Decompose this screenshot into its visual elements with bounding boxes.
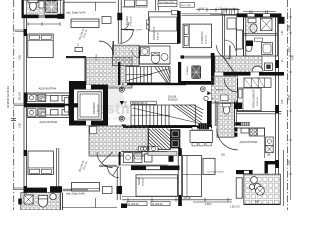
svg-text:11.00 m2: 11.00 m2 [205, 34, 207, 44]
svg-text:2.00x2.20: 2.00x2.20 [97, 104, 99, 114]
svg-text:90 3.04: 90 3.04 [19, 91, 22, 100]
svg-text:de estimas: de estimas [106, 116, 131, 122]
svg-text:HOLÜ 2F: HOLÜ 2F [130, 16, 133, 26]
svg-text:W.GRS: W.GRS [216, 90, 224, 92]
svg-text:28,5x26: 28,5x26 [168, 97, 177, 99]
svg-text:9.80: 9.80 [292, 55, 295, 60]
svg-text:8.40 m2: 8.40 m2 [158, 31, 160, 40]
svg-text:YATAK ODASI 2F: YATAK ODASI 2F [253, 89, 256, 108]
svg-text:AÇIK MUTFAK: AÇIK MUTFAK [240, 140, 258, 144]
svg-text:MUTFAK 2F: MUTFAK 2F [153, 26, 156, 40]
svg-text:42.38 90 m2 30.34: 42.38 90 m2 30.34 [6, 86, 10, 108]
svg-text:N.Ö.Tavan Yük.: N.Ö.Tavan Yük. [159, 1, 175, 4]
svg-text:B. 2F5.19: B. 2F5.19 [129, 204, 140, 206]
svg-text:AÇIK MUTFAK: AÇIK MUTFAK [40, 120, 58, 124]
svg-text:3.10: 3.10 [288, 160, 291, 165]
svg-text:AÇIK MUTFAK: AÇIK MUTFAK [39, 87, 57, 91]
svg-text:ASANSÖR: ASANSÖR [93, 102, 96, 114]
svg-text:(B. (25,19): (B. (25,19) [180, 198, 191, 200]
svg-text:SALON: SALON [138, 177, 141, 185]
svg-text:B. 2F5.19: B. 2F5.19 [153, 204, 164, 206]
svg-text:2.10: 2.10 [288, 47, 291, 52]
svg-text:1.40: 1.40 [282, 30, 284, 35]
svg-text:Y.ODASI: Y.ODASI [186, 66, 189, 75]
svg-text:GİRİŞ: GİRİŞ [95, 54, 98, 60]
svg-text:2.35m: 2.35m [205, 204, 211, 206]
svg-text:MERDİVEN 2F: MERDİVEN 2F [132, 102, 148, 105]
svg-text:mkp. Dolap Yer/Fit: mkp. Dolap Yer/Fit [66, 193, 85, 196]
svg-text:1.60: 1.60 [288, 25, 291, 30]
svg-text:atk. Dolap Yer/Fit: atk. Dolap Yer/Fit [207, 171, 224, 174]
svg-text:3.55: 3.55 [288, 95, 291, 100]
svg-text:Y.ODASI 2F: Y.ODASI 2F [201, 31, 204, 44]
svg-text:1.55 2.10: 1.55 2.10 [230, 206, 240, 208]
svg-text:450: 450 [255, 201, 260, 204]
svg-text:W.GİRİŞ: W.GİRİŞ [126, 16, 129, 26]
svg-text:28.5x26: 28.5x26 [142, 177, 144, 186]
svg-text:13.00 m2: 13.00 m2 [257, 96, 259, 106]
svg-text:2.85: 2.85 [19, 55, 22, 60]
svg-text:1.95: 1.95 [19, 123, 22, 128]
svg-text:N.Ö. 2.85: N.Ö. 2.85 [181, 4, 191, 7]
svg-text:B.Y.05: B.Y.05 [125, 100, 128, 108]
svg-text:94,5/18,9: 94,5/18,9 [168, 99, 178, 101]
svg-text:mkp. Dolap Yer/Fit: mkp. Dolap Yer/Fit [124, 29, 142, 32]
svg-text:mkp. Dolap Yer/Fit: mkp. Dolap Yer/Fit [66, 11, 86, 14]
svg-text:3.00: 3.00 [282, 99, 284, 104]
